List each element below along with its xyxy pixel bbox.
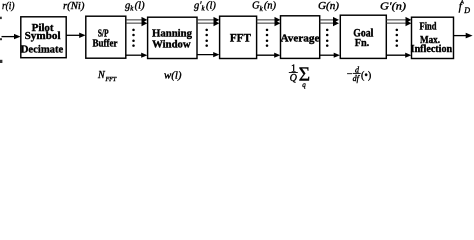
svg-text:Fn.: Fn.: [355, 37, 370, 49]
svg-text:Average: Average: [281, 33, 320, 45]
node label G(n): [318, 1, 340, 12]
parameter label w(l) under Hanning Window: [164, 71, 182, 82]
block U5: Average: [281, 16, 320, 59]
wire bottom arrow FFT to Average: [257, 53, 281, 58]
scan artifact smudge left edge middle: [0, 38, 2, 40]
svg-text:G(n): G(n): [318, 1, 340, 12]
block U2: S/P Buffer: [86, 16, 126, 58]
node label G'(n): [380, 2, 407, 13]
wire input arrow into Pilot Symbol Decimate: [2, 34, 21, 39]
bus wires Average to Goal Fn (top pair): [320, 17, 339, 26]
node label g_k(l): [125, 0, 145, 12]
svg-text:D: D: [463, 6, 470, 15]
svg-text:Decimate: Decimate: [21, 44, 64, 56]
block U7: Find Max. Inflection: [411, 17, 454, 58]
bus wires S/P Buffer to Hanning Window (top pair): [126, 17, 147, 26]
bus wires FFT to Average (top pair): [257, 17, 281, 26]
svg-text:Gk(n): Gk(n): [252, 1, 277, 13]
node label r(i): [2, 1, 15, 12]
wire bottom arrow Goal Fn to Find Max Inflection: [386, 53, 411, 58]
bus dots between Hanning Window and FFT: [205, 29, 208, 47]
block U3: Hanning Window: [148, 17, 197, 58]
node label g'_k(l): [194, 0, 216, 12]
svg-text:Inflection: Inflection: [411, 43, 453, 55]
svg-text:Symbol: Symbol: [25, 30, 61, 42]
svg-text:q: q: [302, 81, 306, 89]
svg-text:g′k(l): g′k(l): [194, 0, 216, 12]
node label f_D (estimated Doppler): [459, 0, 471, 15]
bus wires Goal Fn to Find Max Inflection (top pair): [386, 17, 411, 26]
block U6: Goal Fn.: [340, 15, 386, 58]
wire bottom arrow Average to Goal Fn: [320, 53, 340, 58]
formula 1/Q sum_q under Average: [289, 63, 310, 89]
svg-text:Find: Find: [420, 21, 437, 33]
block U1: Pilot Symbol Decimate: [21, 17, 66, 58]
svg-text:FFT: FFT: [105, 77, 117, 83]
parameter label N_FFT under S/P Buffer: [97, 70, 117, 83]
svg-text:w(l): w(l): [164, 71, 182, 82]
bus dots between Average and Goal Fn: [326, 29, 329, 47]
bus dots between Goal Fn and Find Max Inflection: [396, 29, 399, 47]
svg-text:Q: Q: [290, 73, 298, 84]
scan artifact smudge left edge bottom: [0, 60, 2, 63]
bus wires Hanning Window to FFT (top pair): [197, 17, 219, 26]
svg-text:(•): (•): [361, 71, 371, 82]
node label r(Ni): [63, 1, 85, 12]
block U4: FFT: [220, 16, 257, 58]
wire output arrow from Find Max Inflection: [454, 33, 473, 39]
bus dots between S/P Buffer and Hanning Window: [132, 29, 135, 47]
svg-text:Buffer: Buffer: [93, 37, 118, 49]
scan artifact smudge left edge top: [0, 17, 2, 19]
wire bottom arrow S/P Buffer to Hanning Window: [126, 53, 147, 58]
svg-text:Window: Window: [152, 39, 191, 51]
bus dots between FFT and Average: [266, 29, 269, 47]
svg-text:r(Ni): r(Ni): [63, 1, 85, 12]
wire arrow Pilot Symbol Decimate to S/P Buffer: [66, 33, 85, 38]
svg-text:Hanning: Hanning: [152, 27, 193, 39]
svg-text:r(i): r(i): [2, 1, 15, 12]
svg-text:G′(n): G′(n): [380, 2, 407, 13]
formula -d/df(.) under Goal Fn: [347, 65, 371, 83]
wire bottom arrow Hanning Window to FFT: [197, 52, 219, 57]
svg-text:gk(l): gk(l): [125, 0, 145, 12]
node label G_k(n): [252, 1, 277, 13]
svg-text:FFT: FFT: [230, 33, 251, 45]
